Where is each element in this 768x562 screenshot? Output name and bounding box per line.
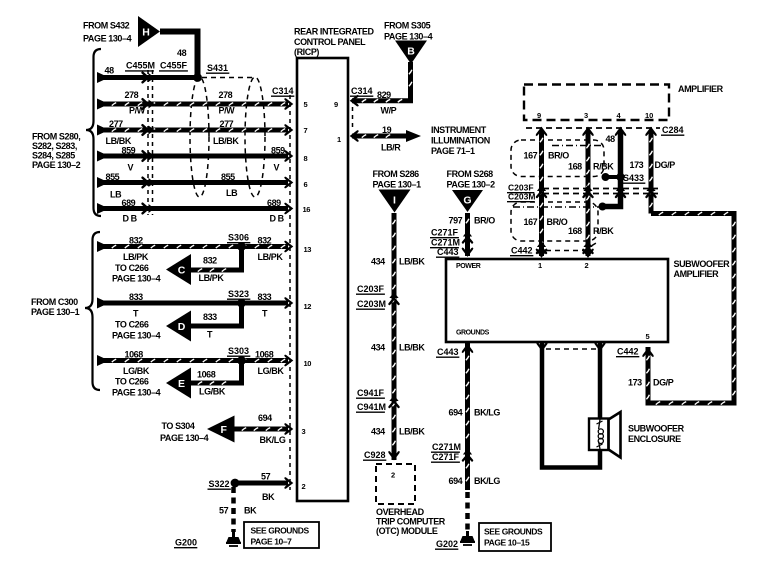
svg-text:48: 48 — [105, 66, 115, 76]
svg-text:C941F: C941F — [357, 388, 385, 398]
svg-text:694: 694 — [258, 413, 272, 423]
svg-text:9: 9 — [334, 100, 338, 109]
svg-text:DG/P: DG/P — [655, 160, 676, 170]
svg-text:277: 277 — [109, 119, 123, 129]
svg-text:PAGE 130–2: PAGE 130–2 — [447, 180, 496, 190]
svg-text:GROUNDS: GROUNDS — [456, 330, 490, 337]
svg-text:797: 797 — [449, 216, 463, 226]
svg-text:G200: G200 — [175, 538, 197, 548]
svg-text:R/BK: R/BK — [593, 226, 614, 236]
svg-text:LB/BK: LB/BK — [399, 257, 425, 267]
svg-text:5: 5 — [304, 100, 308, 109]
svg-text:CONTROL PANEL: CONTROL PANEL — [294, 37, 366, 47]
svg-text:PAGE 130–4: PAGE 130–4 — [112, 274, 161, 284]
svg-text:2: 2 — [585, 261, 589, 270]
svg-text:BK: BK — [262, 492, 275, 502]
svg-text:G202: G202 — [436, 539, 458, 549]
svg-text:57: 57 — [219, 506, 229, 516]
svg-text:AMPLIFIER: AMPLIFIER — [674, 269, 720, 279]
svg-text:OVERHEAD: OVERHEAD — [376, 507, 425, 517]
svg-text:S282, S283,: S282, S283, — [32, 141, 77, 151]
svg-text:7: 7 — [304, 126, 308, 135]
svg-text:PAGE 130–4: PAGE 130–4 — [160, 433, 209, 443]
svg-text:C203M: C203M — [508, 192, 535, 202]
svg-text:PAGE 130–2: PAGE 130–2 — [32, 160, 81, 170]
svg-text:689: 689 — [122, 198, 136, 208]
svg-text:I: I — [393, 194, 396, 206]
svg-text:INSTRUMENT: INSTRUMENT — [431, 125, 487, 135]
svg-text:PAGE 130–4: PAGE 130–4 — [384, 32, 433, 42]
svg-text:434: 434 — [371, 427, 385, 437]
svg-text:ENCLOSURE: ENCLOSURE — [628, 434, 681, 444]
svg-text:H: H — [142, 26, 150, 38]
svg-text:LB/PK: LB/PK — [199, 273, 225, 283]
svg-text:855: 855 — [221, 172, 235, 182]
svg-text:167: 167 — [524, 217, 538, 227]
svg-text:E: E — [178, 378, 185, 390]
svg-text:829: 829 — [377, 90, 391, 100]
svg-text:C203M: C203M — [357, 299, 386, 309]
svg-text:1068: 1068 — [255, 350, 274, 360]
svg-text:LB: LB — [110, 190, 122, 200]
svg-text:173: 173 — [628, 378, 642, 388]
svg-text:D: D — [178, 321, 186, 333]
svg-text:LG/BK: LG/BK — [123, 366, 150, 376]
svg-text:48: 48 — [606, 134, 616, 144]
svg-text:167: 167 — [524, 151, 538, 161]
svg-text:R/BK: R/BK — [593, 162, 614, 172]
svg-text:S284, S285: S284, S285 — [32, 151, 75, 161]
svg-text:1: 1 — [538, 261, 542, 270]
svg-text:S322: S322 — [209, 479, 230, 489]
svg-text:ILLUMINATION: ILLUMINATION — [431, 136, 490, 146]
svg-text:POWER: POWER — [456, 263, 481, 270]
svg-text:19: 19 — [382, 125, 392, 135]
svg-text:9: 9 — [537, 111, 541, 120]
svg-text:PAGE 130–1: PAGE 130–1 — [31, 307, 80, 317]
svg-text:AMPLIFIER: AMPLIFIER — [678, 84, 724, 94]
svg-text:F: F — [221, 424, 228, 436]
svg-text:V: V — [128, 163, 134, 173]
svg-text:278: 278 — [219, 90, 233, 100]
svg-text:C941M: C941M — [357, 402, 386, 412]
svg-text:REAR INTEGRATED: REAR INTEGRATED — [294, 27, 374, 37]
svg-text:C442: C442 — [511, 246, 533, 256]
svg-text:C284: C284 — [662, 125, 684, 135]
svg-text:LB/BK: LB/BK — [399, 343, 425, 353]
svg-text:168: 168 — [568, 162, 582, 172]
svg-text:P/W: P/W — [219, 106, 236, 116]
svg-text:BK: BK — [244, 506, 257, 516]
svg-text:PAGE 130–4: PAGE 130–4 — [112, 388, 161, 398]
svg-text:W/P: W/P — [381, 106, 397, 116]
svg-text:1: 1 — [337, 135, 341, 144]
svg-text:C928: C928 — [364, 450, 386, 460]
svg-text:FROM S286: FROM S286 — [373, 169, 420, 179]
svg-text:PAGE 10–7: PAGE 10–7 — [251, 537, 293, 547]
svg-text:TRIP COMPUTER: TRIP COMPUTER — [376, 517, 446, 527]
svg-text:TO C266: TO C266 — [115, 263, 149, 273]
svg-text:3: 3 — [302, 427, 306, 436]
svg-text:BR/O: BR/O — [548, 151, 569, 161]
svg-text:BK/LG: BK/LG — [260, 435, 286, 445]
svg-text:694: 694 — [449, 476, 463, 486]
svg-text:C271M: C271M — [431, 238, 460, 248]
svg-text:DG/P: DG/P — [653, 378, 674, 388]
svg-text:C314: C314 — [351, 86, 373, 96]
svg-text:C271F: C271F — [432, 452, 460, 462]
svg-text:D B: D B — [123, 214, 138, 224]
svg-text:SEE GROUNDS: SEE GROUNDS — [484, 527, 543, 537]
svg-text:2: 2 — [391, 471, 395, 480]
svg-text:V: V — [274, 163, 280, 173]
svg-text:48: 48 — [177, 48, 187, 58]
svg-text:P/W: P/W — [129, 106, 146, 116]
svg-text:2: 2 — [302, 482, 306, 491]
svg-text:G: G — [463, 194, 471, 206]
svg-text:C: C — [178, 264, 186, 276]
svg-text:FROM S305: FROM S305 — [384, 21, 431, 31]
svg-text:C455F: C455F — [160, 61, 188, 71]
svg-text:LB/PK: LB/PK — [123, 252, 149, 262]
svg-text:10: 10 — [304, 359, 312, 368]
svg-text:LB: LB — [226, 188, 238, 198]
svg-text:LB/BK: LB/BK — [399, 427, 425, 437]
svg-text:6: 6 — [304, 180, 308, 189]
svg-text:LG/BK: LG/BK — [199, 387, 226, 397]
svg-text:C442: C442 — [617, 347, 639, 357]
svg-text:832: 832 — [129, 236, 143, 246]
svg-text:LB/BK: LB/BK — [106, 136, 132, 146]
svg-text:C455M: C455M — [126, 61, 155, 71]
svg-text:8: 8 — [304, 154, 308, 163]
svg-text:434: 434 — [371, 257, 385, 267]
svg-text:689: 689 — [267, 198, 281, 208]
svg-text:168: 168 — [568, 226, 582, 236]
svg-text:D B: D B — [270, 214, 285, 224]
svg-text:S306: S306 — [228, 233, 249, 243]
svg-text:S323: S323 — [228, 289, 249, 299]
svg-text:C443: C443 — [437, 347, 459, 357]
svg-text:PAGE 130–1: PAGE 130–1 — [373, 180, 422, 190]
svg-text:832: 832 — [203, 256, 217, 266]
svg-text:SEE GROUNDS: SEE GROUNDS — [251, 526, 310, 536]
svg-text:S303: S303 — [228, 346, 249, 356]
svg-text:PAGE 130–4: PAGE 130–4 — [83, 34, 132, 44]
svg-text:S433: S433 — [623, 173, 644, 183]
svg-text:16: 16 — [303, 205, 311, 214]
svg-text:1068: 1068 — [197, 370, 216, 380]
svg-text:C314: C314 — [272, 86, 294, 96]
svg-text:(RICP): (RICP) — [294, 47, 319, 57]
svg-text:C443: C443 — [437, 247, 459, 257]
svg-text:57: 57 — [261, 472, 271, 482]
svg-text:S431: S431 — [207, 63, 228, 73]
svg-text:173: 173 — [630, 160, 644, 170]
svg-text:TO C266: TO C266 — [115, 320, 149, 330]
svg-text:833: 833 — [258, 292, 272, 302]
svg-text:TO S304: TO S304 — [162, 421, 195, 431]
svg-text:10: 10 — [645, 111, 653, 120]
svg-text:FROM S280,: FROM S280, — [32, 132, 80, 142]
svg-text:C203F: C203F — [357, 284, 385, 294]
svg-text:PAGE 71–1: PAGE 71–1 — [431, 146, 475, 156]
svg-text:C271M: C271M — [432, 442, 461, 452]
svg-text:FROM C300: FROM C300 — [31, 297, 78, 307]
svg-text:859: 859 — [122, 146, 136, 156]
svg-text:833: 833 — [129, 292, 143, 302]
svg-text:TO C266: TO C266 — [115, 377, 149, 387]
svg-text:694: 694 — [449, 408, 463, 418]
svg-text:BR/O: BR/O — [474, 216, 495, 226]
svg-text:BK/LG: BK/LG — [474, 476, 500, 486]
svg-text:832: 832 — [258, 236, 272, 246]
svg-text:LG/BK: LG/BK — [258, 366, 285, 376]
svg-text:855: 855 — [106, 172, 120, 182]
svg-text:833: 833 — [203, 312, 217, 322]
svg-text:LB/BK: LB/BK — [213, 136, 239, 146]
svg-text:C271F: C271F — [431, 228, 459, 238]
svg-text:BR/O: BR/O — [547, 217, 568, 227]
svg-text:12: 12 — [304, 302, 312, 311]
svg-text:FROM S268: FROM S268 — [447, 169, 494, 179]
svg-text:SUBWOOFER: SUBWOOFER — [628, 424, 685, 434]
svg-text:859: 859 — [271, 146, 285, 156]
svg-text:277: 277 — [220, 119, 234, 129]
svg-text:LB/R: LB/R — [381, 143, 401, 153]
svg-text:B: B — [407, 46, 415, 58]
svg-text:3: 3 — [584, 111, 588, 120]
svg-text:PAGE 130–4: PAGE 130–4 — [112, 331, 161, 341]
svg-text:(OTC) MODULE: (OTC) MODULE — [376, 526, 438, 536]
svg-text:LB/PK: LB/PK — [258, 252, 284, 262]
svg-text:434: 434 — [371, 343, 385, 353]
svg-text:13: 13 — [304, 245, 312, 254]
svg-text:278: 278 — [125, 90, 139, 100]
svg-text:SUBWOOFER: SUBWOOFER — [674, 259, 731, 269]
svg-text:5: 5 — [646, 332, 650, 341]
svg-text:BK/LG: BK/LG — [474, 408, 500, 418]
svg-text:FROM S432: FROM S432 — [83, 21, 130, 31]
svg-text:PAGE 10–15: PAGE 10–15 — [484, 538, 530, 548]
svg-text:1068: 1068 — [125, 350, 144, 360]
